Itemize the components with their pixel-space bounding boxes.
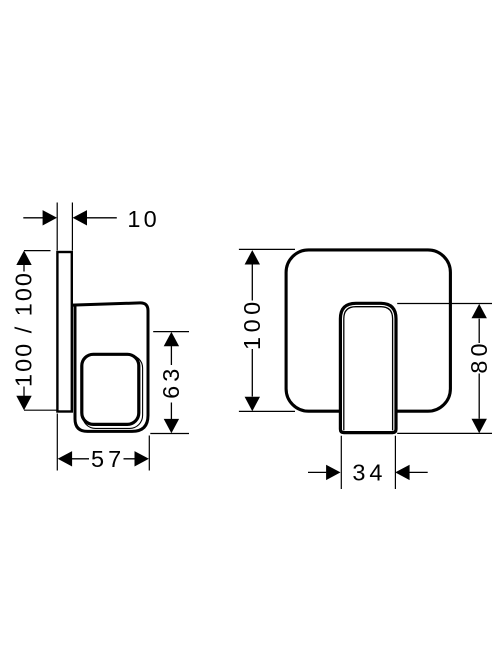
side view handle hole (82, 354, 139, 424)
svg-text:100 / 100: 100 / 100 (10, 271, 36, 387)
svg-text:63: 63 (158, 365, 184, 399)
dimension 100 line and arrows (251, 265, 253, 397)
svg-text:80: 80 (466, 339, 492, 373)
svg-text:57: 57 (91, 446, 125, 472)
dimension 34 line and arrows (308, 471, 428, 473)
side view handle outer body (72, 303, 148, 432)
dimension 63 extension lines (150, 332, 189, 434)
front view escutcheon plate (286, 250, 450, 411)
dimension 80 line and arrows (478, 319, 480, 419)
side view handle hole far edge (83, 355, 143, 428)
side view wall plate (57, 252, 71, 412)
dimension 34 extension lines (341, 436, 395, 489)
dimension 100/100 extension lines (24, 251, 57, 411)
dimension 10 extension lines (57, 203, 72, 251)
dimension 100 extension lines (239, 249, 295, 411)
dimension 10 line and arrows (23, 217, 117, 219)
front view handle inner edge (344, 307, 393, 431)
dimension 63 line and arrows (170, 346, 172, 420)
front view handle outer body (340, 303, 396, 432)
svg-text:100: 100 (239, 297, 265, 350)
dimension 80 extension lines (397, 304, 492, 434)
svg-text:34: 34 (352, 460, 386, 486)
dimension 100/100 line and arrows (23, 264, 25, 397)
dimension 57 extension lines (57, 414, 149, 471)
dimension 57 line and arrows (71, 458, 135, 460)
svg-text:10: 10 (127, 206, 160, 232)
